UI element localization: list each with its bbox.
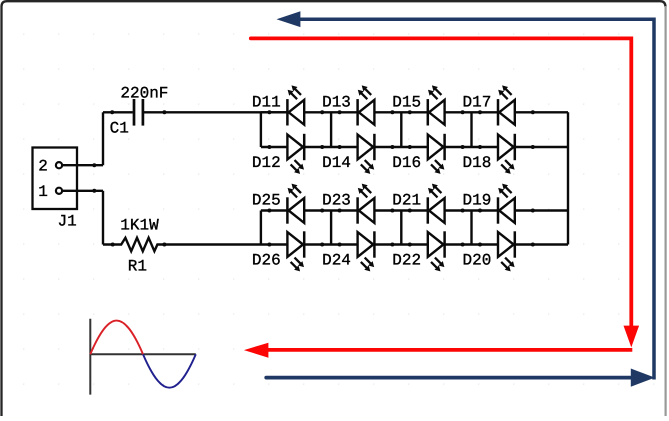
svg-text:D24: D24 [322, 251, 351, 269]
svg-text:C1: C1 [110, 119, 129, 137]
svg-text:J1: J1 [58, 212, 77, 230]
svg-text:D23: D23 [322, 191, 351, 209]
svg-text:D22: D22 [392, 251, 421, 269]
svg-text:D13: D13 [322, 93, 351, 111]
svg-text:220nF: 220nF [120, 85, 168, 103]
svg-text:2: 2 [38, 158, 48, 176]
svg-text:D21: D21 [392, 191, 421, 209]
svg-text:D17: D17 [463, 93, 492, 111]
svg-text:1: 1 [38, 183, 48, 201]
svg-text:D20: D20 [463, 251, 492, 269]
svg-text:D15: D15 [392, 93, 421, 111]
svg-text:D16: D16 [392, 154, 421, 172]
svg-text:1K1W: 1K1W [120, 217, 159, 235]
svg-text:D19: D19 [463, 191, 492, 209]
svg-text:D12: D12 [252, 154, 281, 172]
svg-text:R1: R1 [128, 258, 147, 276]
svg-text:D18: D18 [463, 154, 492, 172]
svg-text:D14: D14 [322, 154, 351, 172]
svg-text:D26: D26 [252, 251, 281, 269]
svg-text:D11: D11 [252, 93, 281, 111]
svg-text:D25: D25 [252, 191, 281, 209]
